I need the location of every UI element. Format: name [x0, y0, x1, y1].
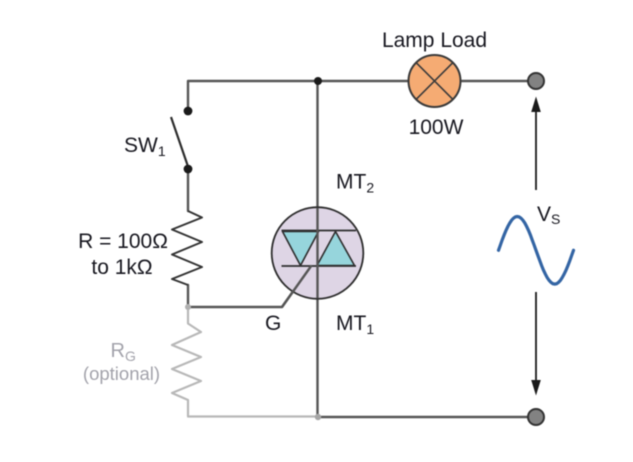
svg-text:R = 100Ω: R = 100Ω — [78, 230, 168, 253]
svg-text:(optional): (optional) — [83, 363, 160, 384]
svg-text:Lamp Load: Lamp Load — [382, 29, 487, 52]
svg-text:G: G — [265, 312, 281, 335]
svg-text:to 1kΩ: to 1kΩ — [91, 256, 152, 279]
svg-text:100W: 100W — [409, 116, 464, 139]
